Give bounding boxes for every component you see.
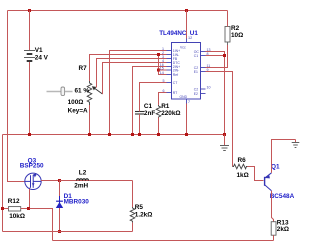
transistor Q3 BSP250 mosfet (25, 173, 41, 189)
pin GND bottom stub (186, 99, 188, 104)
pin 12 Vcc stub (186, 33, 188, 43)
resistor R1 (156, 105, 161, 118)
wire IC GND pin to ground rail (186, 104, 188, 135)
wire upper bottom rail (3, 231, 133, 233)
wire pin4 row to wiper tail (103, 63, 167, 95)
svg-text:Vcc: Vcc (180, 46, 186, 50)
ground symbol main (220, 135, 229, 151)
wire pin6 row stub (159, 69, 167, 71)
svg-text:Q1: Q1 (271, 164, 280, 171)
transistor Q1 BC548A (264, 177, 266, 186)
svg-text:V1: V1 (35, 47, 43, 54)
node link on pin6 row (157, 69, 160, 72)
node junction top battery (28, 9, 31, 12)
svg-text:E1: E1 (194, 70, 198, 74)
node pin1 vertical on rail (108, 133, 111, 136)
node Q3 drain / D1 / L2 (58, 179, 61, 182)
wire pin3 row to wiper arrow tip (97, 59, 167, 88)
wire C1out row join (206, 55, 225, 57)
node R12 left (1, 207, 4, 210)
svg-text:5: 5 (163, 79, 165, 83)
wire R1 bottom to rail (158, 118, 160, 135)
wire Q3 bottom node to lower rail (30, 209, 53, 241)
wire outer left vertical (2, 135, 4, 232)
svg-text:2nF: 2nF (144, 110, 155, 117)
pin number labels (160, 47, 211, 104)
svg-text:2IN-: 2IN- (173, 68, 179, 72)
svg-text:10: 10 (207, 86, 211, 90)
svg-text:RT: RT (173, 91, 177, 95)
wire pin5 row to ground rail (133, 67, 167, 135)
wire OC row to ground vertical (206, 52, 225, 135)
capacitor C1 (135, 112, 144, 115)
node battery on ground rail (28, 133, 31, 136)
pin stubs left (167, 51, 172, 93)
node R12 right / Q3 bottom (27, 207, 30, 210)
wire E1 row to R6 (206, 72, 233, 167)
svg-text:10Ω: 10Ω (231, 32, 243, 39)
wire pin2-row link down to Ref row (159, 55, 167, 75)
wire C1 bottom to rail (139, 114, 141, 135)
node C1out join (223, 54, 226, 57)
potentiometer R7 (87, 81, 92, 105)
svg-text:Ref: Ref (173, 73, 178, 77)
wire R6 to Q1 base (247, 167, 263, 181)
svg-text:TL494NC: TL494NC (159, 30, 187, 37)
ground right (292, 140, 300, 148)
wire L2 right down to R5 (132, 181, 134, 208)
svg-text:C1: C1 (194, 54, 198, 58)
svg-text:1kΩ: 1kΩ (237, 172, 249, 179)
svg-text:1.2kΩ: 1.2kΩ (135, 211, 153, 218)
node junction top IC Vcc (185, 9, 188, 12)
svg-text:R6: R6 (238, 157, 247, 164)
svg-text:GND: GND (180, 95, 188, 99)
svg-text:7: 7 (188, 100, 190, 104)
wire R13 bottom to lower rail (273, 235, 275, 240)
node GND on rail (185, 133, 188, 136)
pin stubs right (201, 52, 206, 94)
node link on pin2 row (157, 53, 160, 56)
inductor L2 (60, 180, 133, 182)
wire R12 left lead to outer vertical (3, 208, 9, 210)
node D1 on upper rail (58, 230, 61, 233)
R7 wiper arrow (92, 86, 103, 94)
op-amp U1 TL494NC body (172, 43, 201, 100)
svg-text:L2: L2 (79, 170, 87, 177)
svg-text:14: 14 (160, 71, 164, 75)
wire Q1 collector up to right ground (272, 140, 296, 173)
svg-text:BSP250: BSP250 (20, 163, 44, 170)
wire R1 top to RT pin (159, 93, 167, 105)
wire D1 bottom to upper rail (59, 208, 61, 232)
slider widget for R7 (47, 91, 73, 93)
svg-text:6: 6 (163, 89, 165, 93)
svg-text:100Ω: 100Ω (68, 99, 84, 106)
resistor R13 (271, 222, 276, 236)
svg-text:R2: R2 (231, 25, 240, 32)
wire left inner vertical to Q3 source (8, 11, 26, 182)
svg-text:C2: C2 (194, 87, 198, 91)
node pot bottom on rail (88, 133, 91, 136)
svg-text:MBR030: MBR030 (64, 198, 90, 205)
svg-text:Key=A: Key=A (68, 108, 88, 115)
resistor R12 (9, 207, 21, 211)
svg-text:BC548A: BC548A (270, 193, 295, 200)
svg-text:R5: R5 (135, 204, 144, 211)
node R1 bottom (157, 133, 160, 136)
node C1 bottom (138, 133, 141, 136)
wire C1 top to CT pin (140, 83, 167, 112)
svg-text:2kΩ: 2kΩ (277, 226, 289, 233)
wire R2 bottom lead (227, 42, 229, 45)
svg-text:2mH: 2mH (74, 183, 88, 190)
svg-text:24 V: 24 V (35, 55, 49, 62)
node pin5 vertical on rail (131, 133, 134, 136)
wire battery top (29, 11, 31, 51)
node ground vertical on rail (223, 133, 226, 136)
svg-text:R12: R12 (8, 198, 20, 205)
svg-text:61 %: 61 % (75, 88, 90, 95)
svg-text:15: 15 (160, 67, 164, 71)
wire pot top to pin 2 row (90, 55, 167, 82)
svg-text:12: 12 (188, 36, 192, 40)
resistor R6 (233, 164, 248, 169)
svg-text:E2: E2 (194, 92, 198, 96)
resistor R5 (130, 207, 135, 223)
svg-text:220kΩ: 220kΩ (161, 110, 180, 117)
svg-text:R1: R1 (161, 103, 170, 110)
wire top +24V rail (8, 10, 228, 12)
wire Q1 emitter to R13 (272, 191, 274, 222)
svg-text:C1: C1 (144, 103, 153, 110)
wire lower bottom rail (53, 240, 274, 242)
IC inner pin names (173, 46, 200, 99)
svg-text:CT: CT (173, 81, 178, 85)
diode D1 MBR030 (59, 181, 61, 202)
battery V1 (24, 51, 35, 62)
wire pot bottom to ground rail (89, 105, 91, 135)
wire R2 bottom to C2 row (206, 45, 228, 68)
wire ground rail horizontal (3, 134, 225, 136)
wire Q3 right terminal to L2/D1 node (41, 180, 60, 182)
wire Vcc from top rail (186, 11, 188, 39)
resistor R2 (225, 27, 230, 43)
wire battery bottom to ground rail (29, 62, 31, 135)
wire R12 right lead (21, 208, 30, 210)
wire R5 bottom to upper rail (132, 223, 134, 232)
wire pin1 row to ground rail (110, 51, 167, 135)
svg-text:R7: R7 (79, 65, 88, 72)
svg-text:10kΩ: 10kΩ (9, 213, 25, 220)
wire Q3 bottom lead down to R12 node (29, 189, 31, 209)
